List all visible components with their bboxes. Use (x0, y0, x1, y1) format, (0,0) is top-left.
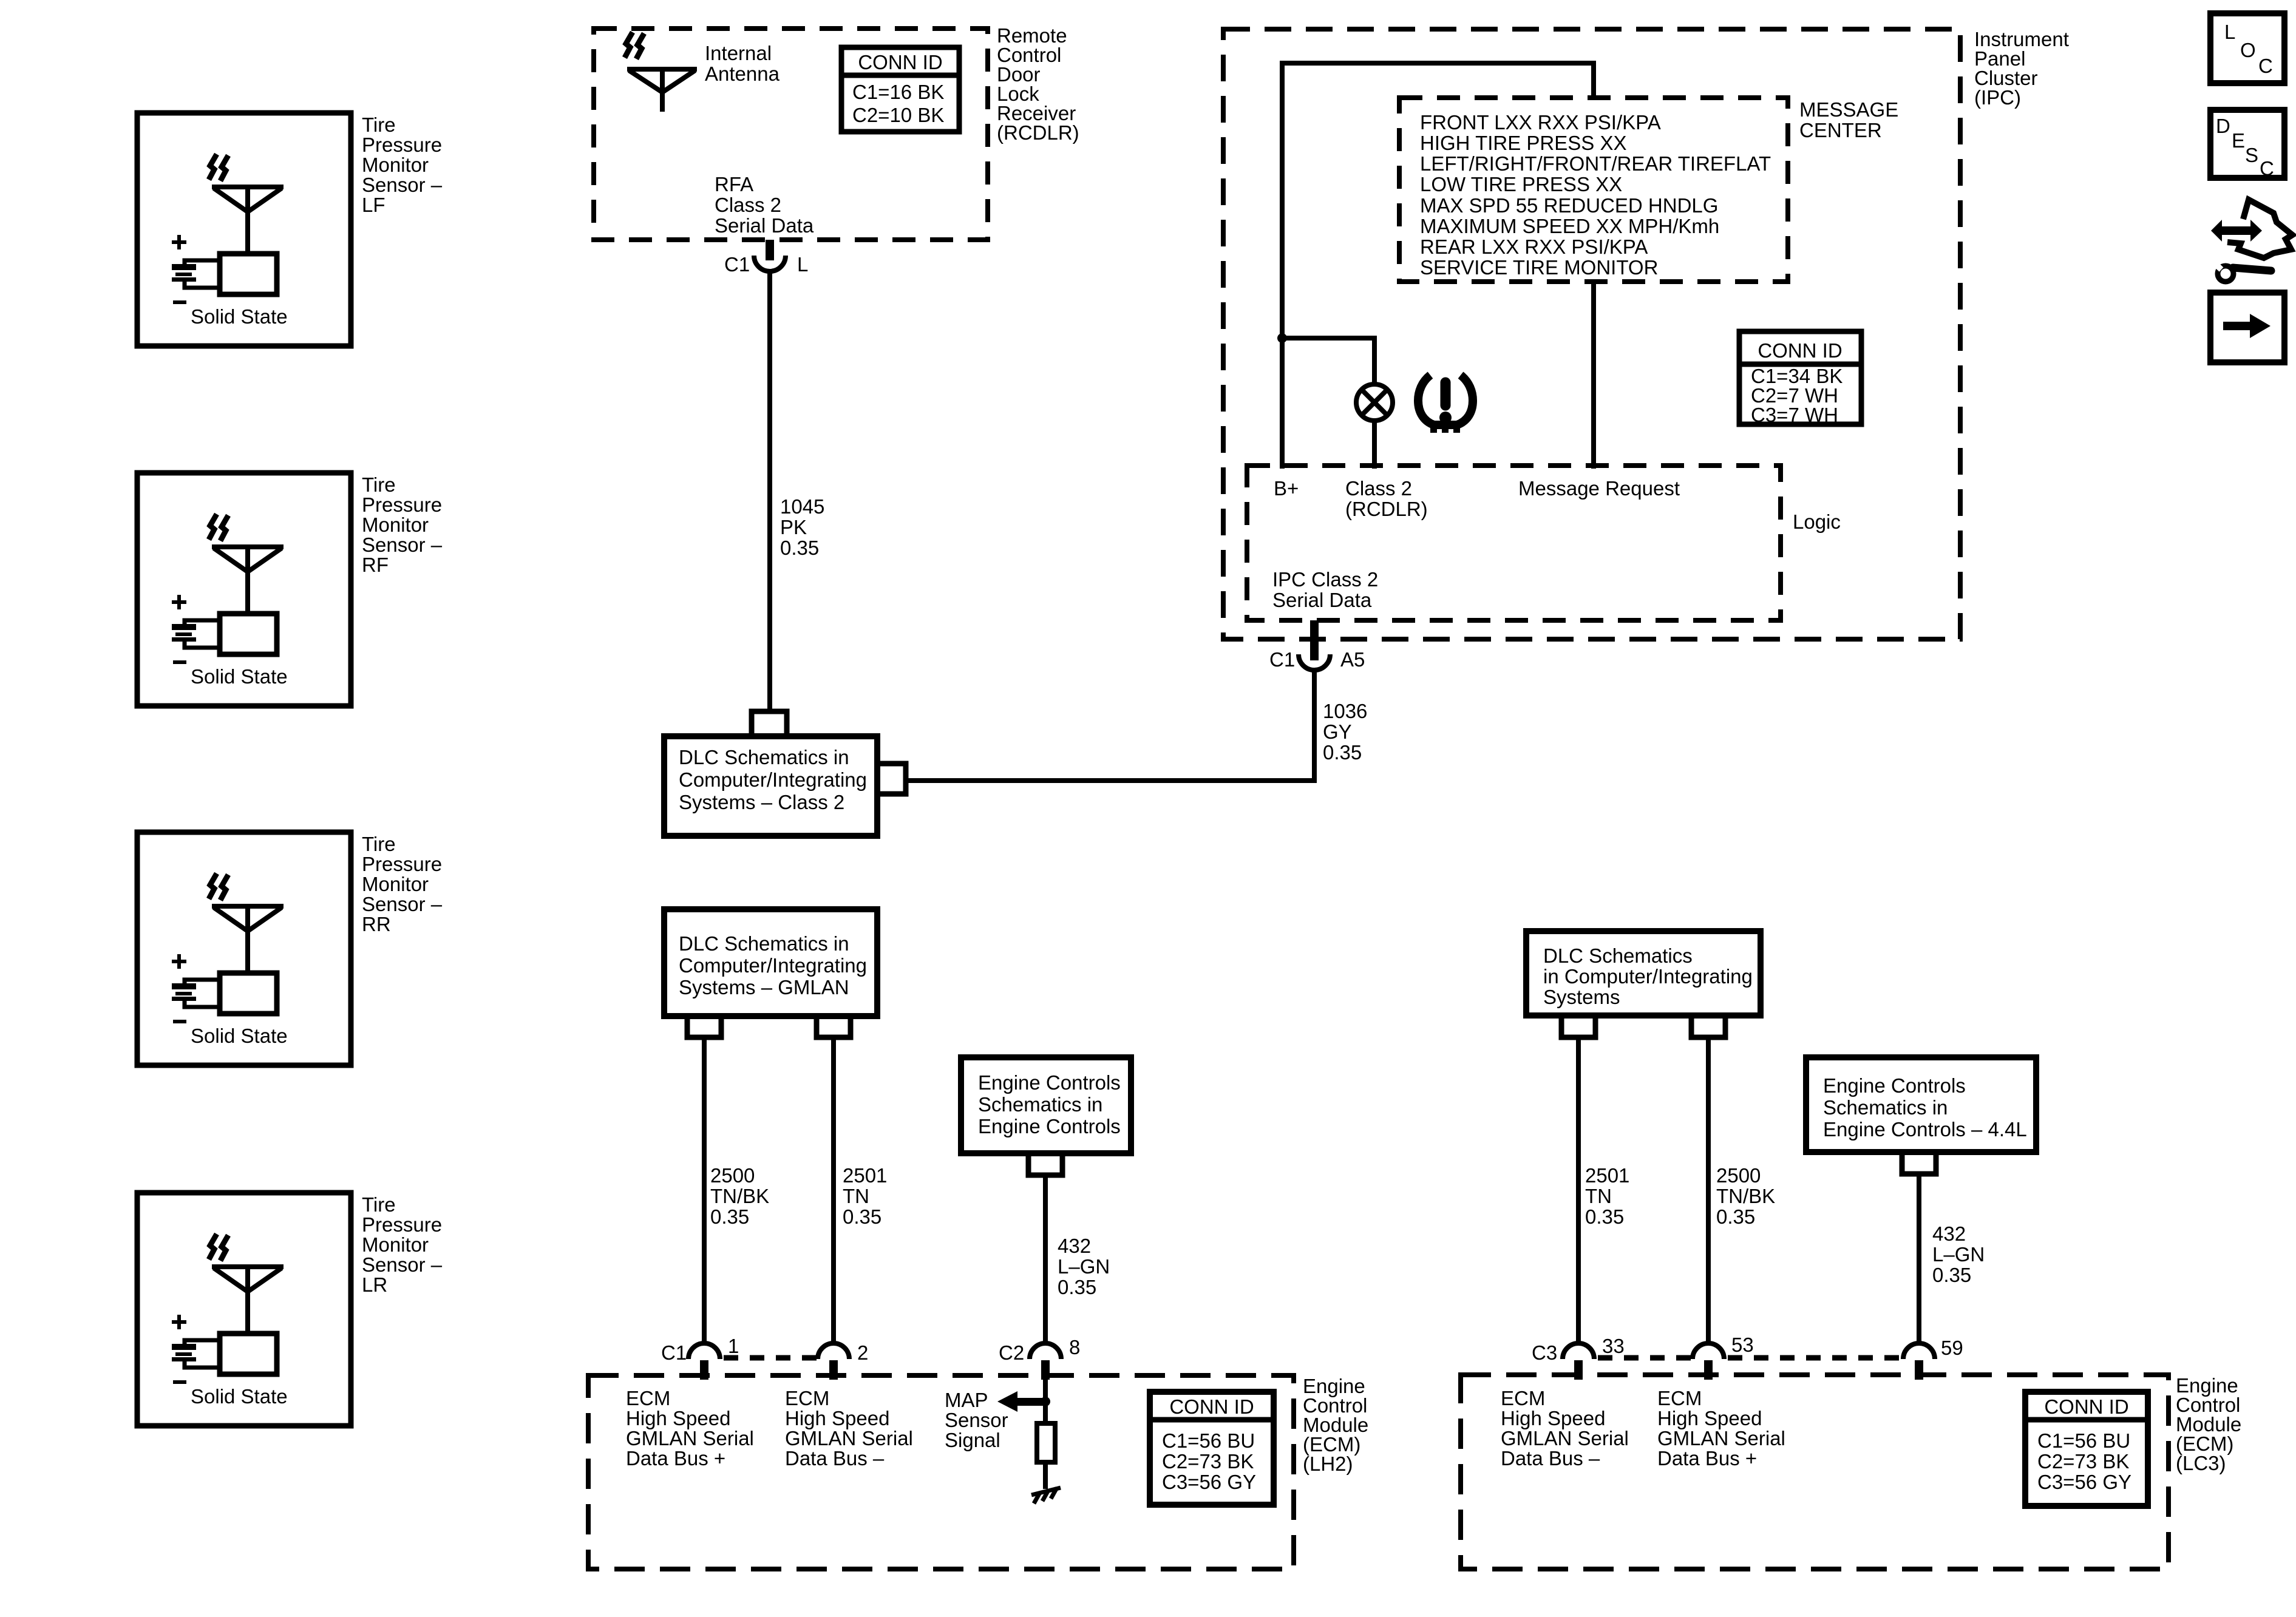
MESSAGE CENTER dashed box (1399, 98, 1788, 282)
connector C1 pin L stub (766, 240, 774, 260)
svg-text:L: L (797, 253, 808, 276)
svg-text:33: 33 (1602, 1335, 1625, 1357)
resistor (1037, 1423, 1055, 1462)
ground (1031, 1488, 1061, 1503)
svg-text:E: E (2232, 129, 2245, 152)
DLC Schematics Class 2 box top tab (752, 711, 787, 736)
svg-text:C2=73 BK: C2=73 BK (2037, 1450, 2129, 1473)
wire MAP signal (1043, 1380, 1048, 1423)
svg-text:C2=73 BK: C2=73 BK (1162, 1450, 1254, 1473)
GMLAN bus dashes right 2 (1728, 1355, 1903, 1361)
svg-text:59: 59 (1941, 1337, 1963, 1359)
svg-text:C1: C1 (1269, 648, 1295, 671)
svg-text:IPC Class 2 Serial Data: IPC Class 2 Serial Data (1272, 568, 1384, 611)
connector C1 pin 1 (688, 1343, 720, 1359)
connector pin 2 stub (829, 1360, 838, 1380)
4.4L box bottom tab (1902, 1152, 1936, 1174)
RCDLR internal antenna RF waves (625, 32, 633, 58)
connector pin 59 (1903, 1343, 1935, 1359)
DLC Schematics in Computer/Integrating Systems - Class 2 box (664, 736, 877, 836)
svg-text:Internal Antenna: Internal Antenna (705, 42, 780, 85)
svg-text:Message Request: Message Request (1518, 477, 1680, 500)
connector C2 pin 8 stub (1041, 1360, 1050, 1380)
DLC Schematics in Computer/Integrating Systems box (right) (1526, 931, 1761, 1015)
svg-text:C: C (2260, 157, 2274, 180)
svg-text:DLC Schematics in Computer/Int: DLC Schematics in Computer/IntegratingSy… (679, 746, 867, 813)
connector C1 pin 1 stub (700, 1360, 708, 1380)
DESC icon box (2210, 110, 2284, 180)
connector C3 pin 33 stub (1574, 1360, 1583, 1380)
svg-text:CONN ID: CONN ID (1169, 1395, 1254, 1418)
TPMS warning telltale icon (1418, 375, 1473, 433)
vehicle diagnostic icon wrench (2213, 262, 2271, 282)
svg-text:C3=7 WH: C3=7 WH (1751, 404, 1838, 426)
svg-text:Class 2 (RCDLR): Class 2 (RCDLR) (1345, 477, 1428, 520)
indicator bulb (1356, 384, 1393, 421)
svg-text:B+: B+ (1274, 477, 1299, 500)
svg-text:C3: C3 (1532, 1341, 1557, 1364)
svg-text:D: D (2216, 115, 2230, 137)
next-page arrow icon box (2210, 293, 2284, 362)
GMLAN box bottom tab left (687, 1016, 721, 1037)
wire 2501 TN (831, 1037, 836, 1343)
svg-text:C1=16 BK: C1=16 BK (852, 81, 944, 103)
svg-text:C1=56 BU: C1=56 BU (2037, 1429, 2130, 1452)
svg-text:CONN ID: CONN ID (858, 51, 942, 73)
right DLC box bottom tab left (1561, 1015, 1595, 1037)
DLC Class 2 box right bracket (877, 764, 906, 794)
svg-text:CONN ID: CONN ID (1758, 339, 1842, 362)
svg-text:Logic: Logic (1793, 510, 1841, 533)
MAP junction node (1041, 1397, 1050, 1406)
svg-text:O: O (2240, 39, 2256, 61)
svg-text:C1: C1 (661, 1341, 687, 1364)
svg-text:DLC Schematics in Computer/Int: DLC Schematics in Computer/IntegratingSy… (679, 932, 867, 998)
ECM LH2 CONN ID table (1150, 1392, 1274, 1505)
Engine Controls box bottom tab (1028, 1153, 1062, 1175)
connector C3 pin 33 (1563, 1343, 1594, 1359)
wire resistor to ground (1043, 1462, 1048, 1489)
vehicle diagnostic icon double arrow (2211, 220, 2262, 242)
wire 2501 TN right (1576, 1037, 1581, 1343)
connector pin 53 (1693, 1343, 1724, 1359)
wire 432 L-GN (1043, 1175, 1048, 1343)
connector pin 2 (818, 1343, 849, 1359)
MAP signal arrow (997, 1391, 1045, 1412)
svg-text:53: 53 (1731, 1334, 1754, 1356)
svg-text:C3=56 GY: C3=56 GY (2037, 1471, 2131, 1493)
tire pressure monitor sensor LF (137, 113, 443, 346)
IPC CONN ID table (1739, 331, 1861, 426)
wire message request (1591, 282, 1596, 469)
wire 432 L-GN right (1917, 1174, 1921, 1343)
right DLC box bottom tab right (1691, 1015, 1725, 1037)
svg-text:C2: C2 (999, 1341, 1024, 1364)
DLC Schematics GMLAN box (664, 909, 877, 1016)
GMLAN bus dashes right 1 (1598, 1355, 1693, 1361)
IPC logic dashed box (1247, 466, 1781, 620)
wire 1045 PK (767, 271, 772, 711)
connector pin 59 stub (1915, 1360, 1923, 1380)
IPC dashed box (1223, 29, 1960, 639)
svg-text:CONN ID: CONN ID (2044, 1395, 2128, 1418)
svg-text:2: 2 (857, 1341, 868, 1364)
tire pressure monitor sensor RR (137, 832, 443, 1065)
svg-text:C1=56 BU: C1=56 BU (1162, 1429, 1255, 1452)
tire pressure monitor sensor RF (137, 473, 443, 706)
wire 2500 TN/BK (702, 1037, 707, 1343)
wire B+ drop (1280, 338, 1285, 469)
GMLAN box bottom tab right (817, 1016, 851, 1037)
Engine Controls Schematics 4.4L box (1806, 1057, 2036, 1152)
connector C1 pin A5 stub (1310, 620, 1319, 660)
svg-text:C3=56 GY: C3=56 GY (1162, 1471, 1256, 1493)
Engine Controls Schematics box (961, 1057, 1131, 1153)
svg-text:1: 1 (728, 1335, 739, 1357)
connector C1 pin L (754, 256, 786, 271)
svg-text:A5: A5 (1340, 648, 1365, 671)
svg-text:L: L (2224, 21, 2235, 43)
wire 1036 GY (906, 670, 1314, 781)
junction node (1277, 333, 1287, 343)
wire bulb to Class 2 (RCDLR) input (1372, 421, 1377, 469)
svg-text:C2=10 BK: C2=10 BK (852, 104, 944, 126)
LOC icon box (2210, 13, 2284, 83)
svg-text:S: S (2245, 144, 2258, 166)
ECM LC3 dashed box (1461, 1375, 2169, 1569)
GMLAN bus dashes (724, 1355, 818, 1361)
wire 2500 TN/BK right (1706, 1037, 1711, 1343)
RCDLR internal antenna (627, 69, 697, 112)
RCDLR dashed box (594, 29, 988, 240)
connector C1 pin A5 (1299, 654, 1330, 670)
connector C2 pin 8 (1030, 1343, 1061, 1359)
vehicle diagnostic icon car outline (2227, 200, 2292, 258)
svg-text:8: 8 (1069, 1336, 1080, 1358)
ECM LC3 CONN ID table (2025, 1392, 2148, 1506)
connector pin 53 stub (1704, 1360, 1713, 1380)
ECM LH2 dashed box (588, 1375, 1294, 1569)
wire B+ feed (top run) (1282, 63, 1594, 338)
RCDLR CONN ID table (841, 47, 959, 132)
svg-text:C: C (2258, 55, 2273, 77)
svg-text:C1: C1 (724, 253, 750, 276)
wire branch to indicator bulb (1282, 338, 1374, 384)
tire pressure monitor sensor LR (137, 1193, 443, 1426)
